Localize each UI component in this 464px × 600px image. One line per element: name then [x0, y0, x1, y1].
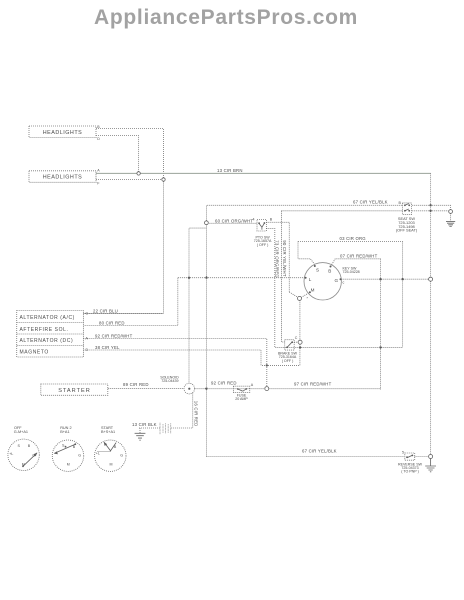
- terminal dot B: [330, 266, 332, 268]
- contact dots PTO: [258, 222, 260, 224]
- svg-text:(OFF SEAT): (OFF SEAT): [396, 228, 418, 233]
- svg-text:B: B: [73, 445, 76, 449]
- wire HL1 pin B to vertical: [96, 129, 164, 180]
- junction solenoid center: [188, 388, 190, 390]
- svg-text:M: M: [67, 463, 70, 467]
- terminal dot M: [309, 291, 311, 293]
- svg-text:G: G: [32, 453, 35, 457]
- PTO switch SW1 box: [257, 220, 266, 232]
- svg-text:M: M: [311, 288, 315, 293]
- contact dots brake: [286, 346, 288, 348]
- svg-text:ALTERNATOR (A/C): ALTERNATOR (A/C): [20, 315, 75, 321]
- terminal dot L: [305, 277, 307, 279]
- ground G2 bottom right: [425, 459, 436, 472]
- wire battery negative to ground: [138, 427, 160, 429]
- PTO switch lever: [259, 223, 265, 230]
- svg-text:16 CIR RED: 16 CIR RED: [193, 401, 198, 427]
- svg-text:+L: +L: [9, 452, 13, 456]
- headlight HL2 box: [29, 171, 96, 183]
- junction brake connector bottom: [299, 346, 301, 348]
- wire 60 CIR ORG/WHT to PTO: [208, 222, 258, 224]
- seat switch lower lever: [405, 209, 409, 211]
- svg-text:( OFF ): ( OFF ): [282, 359, 294, 363]
- battery BT1 ground wire: [139, 428, 141, 433]
- key position circle OFF: [8, 439, 39, 470]
- svg-text:67 CIR YEL/BLK: 67 CIR YEL/BLK: [353, 199, 388, 204]
- wire seat lower right to connector: [412, 210, 448, 212]
- wire key L to left: [178, 277, 305, 279]
- wire 80 CIR RED drop: [83, 278, 177, 326]
- START position dashed L line: [98, 451, 111, 453]
- connector circle 60 CIR wire: [205, 221, 209, 225]
- svg-text:D: D: [86, 348, 89, 352]
- wire HL1 pin D to junction: [96, 136, 139, 174]
- svg-text:C: C: [295, 336, 298, 340]
- svg-text:07 CIR RED/WHT: 07 CIR RED/WHT: [340, 253, 378, 258]
- wire right vertical main: [430, 173, 432, 456]
- wire alternator ac 22 CIR BLU stub: [83, 313, 163, 315]
- junction L wire at x206: [205, 277, 207, 279]
- svg-text:G: G: [120, 453, 123, 457]
- RUN position arrowhead: [54, 451, 58, 454]
- junction L wire at x189: [188, 277, 190, 279]
- junction 97 wire at x206: [205, 387, 207, 389]
- svg-text:S: S: [316, 267, 319, 272]
- contact dots reverse: [406, 456, 408, 458]
- reverse switch SW4 box: [405, 453, 415, 460]
- ground G3 battery: [135, 433, 146, 440]
- junction seat top at right vertical: [429, 204, 431, 206]
- svg-text:S: S: [18, 444, 21, 448]
- connector circle M branch: [298, 296, 302, 300]
- svg-text:A: A: [251, 383, 254, 387]
- wire 03 CIR ORG left drop to S: [298, 242, 315, 265]
- connector circle brake: [298, 340, 302, 344]
- fuse F1 box: [233, 386, 249, 392]
- wire reverse switch to ground connector: [415, 456, 431, 458]
- svg-text:B: B: [270, 218, 273, 222]
- key switch U1 circle: [304, 263, 341, 300]
- svg-text:AFTERFIRE SOL.: AFTERFIRE SOL.: [20, 327, 69, 333]
- svg-text:*: *: [307, 297, 309, 301]
- svg-text:B: B: [28, 444, 31, 448]
- svg-text:89 CIR RED: 89 CIR RED: [123, 382, 149, 387]
- junction seat lower at right vertical: [429, 210, 431, 212]
- junction circle headlight B wire: [162, 178, 165, 181]
- svg-text:725-04439: 725-04439: [161, 379, 178, 383]
- wire 13 CIR BRN HL2 pin A to right vertical: [96, 172, 431, 174]
- connector circle fuse out: [265, 387, 269, 391]
- OFF position contact line M to G: [23, 453, 37, 466]
- alternator stack divider 3: [17, 345, 84, 347]
- brake switch SW2 box: [285, 340, 295, 350]
- svg-text:ALTERNATOR (DC): ALTERNATOR (DC): [20, 338, 74, 344]
- fuse element: [238, 389, 247, 391]
- svg-text:13 CIR BRN: 13 CIR BRN: [217, 168, 243, 173]
- svg-text:M: M: [22, 463, 25, 467]
- svg-text:S: S: [62, 444, 65, 448]
- seat switch SW3 box: [403, 203, 412, 215]
- wire PTO bottom to brake left: [266, 228, 402, 347]
- junction G wire at x380: [379, 278, 381, 280]
- wire 03 CIR ORG right drop: [402, 242, 404, 348]
- wire battery positive riser: [171, 393, 193, 428]
- wire starter to solenoid: [108, 388, 184, 390]
- svg-text:38 CIR YEL: 38 CIR YEL: [95, 345, 120, 350]
- headlight HL1 box: [29, 126, 96, 138]
- OFF position arrowhead: [34, 453, 38, 457]
- seat switch upper lever: [405, 204, 409, 206]
- svg-text:73 CIR ORG/RED: 73 CIR ORG/RED: [275, 240, 280, 277]
- svg-text:22 CIR BLU: 22 CIR BLU: [93, 308, 118, 313]
- svg-text:B+S+A1: B+S+A1: [101, 430, 115, 434]
- svg-text:A: A: [97, 169, 100, 173]
- svg-text:20 AMP: 20 AMP: [235, 397, 248, 401]
- svg-text:+L: +L: [96, 452, 100, 456]
- wire PTO pin B right then down: [266, 222, 289, 292]
- svg-text:HEADLIGHTS: HEADLIGHTS: [43, 174, 82, 180]
- START position V line S-B: [104, 442, 116, 451]
- svg-text:HEADLIGHTS: HEADLIGHTS: [43, 130, 82, 136]
- svg-text:B: B: [114, 445, 117, 449]
- svg-text:MAGNETO: MAGNETO: [20, 350, 49, 356]
- svg-text:B: B: [97, 125, 100, 129]
- contact dots seat lower: [404, 210, 406, 212]
- RUN position B dot: [74, 443, 76, 445]
- svg-text:80 CIR RED: 80 CIR RED: [99, 320, 125, 325]
- svg-text:L: L: [309, 277, 312, 282]
- ground G1 seat: [446, 222, 455, 227]
- svg-text:F: F: [97, 182, 100, 186]
- svg-text:( TO PNP ): ( TO PNP ): [401, 470, 419, 474]
- svg-text:G: G: [335, 278, 339, 283]
- wire 03 CIR ORG: [298, 241, 403, 243]
- wire vertical x282 to brake top: [282, 211, 285, 342]
- wire seat switch top right: [412, 205, 450, 210]
- wire solenoid to fuse to 97 CIR RED/WHT corner: [195, 388, 381, 390]
- battery BT1 plates: [160, 423, 171, 434]
- svg-text:C: C: [86, 312, 89, 316]
- wire junction to solenoid vertical: [189, 228, 207, 383]
- reverse switch X: [407, 455, 413, 458]
- contact dots fuse: [237, 388, 239, 390]
- connector circle bottom right: [429, 455, 433, 459]
- svg-text:92 CIR RED/WHT: 92 CIR RED/WHT: [95, 333, 133, 338]
- svg-text:67 CIR YEL/BLK: 67 CIR YEL/BLK: [302, 448, 337, 453]
- junction wire3 wire4 cross: [266, 364, 268, 366]
- svg-text:( OFF ): ( OFF ): [257, 243, 269, 247]
- key position circle RUN: [52, 440, 83, 471]
- svg-text:B+A1: B+A1: [60, 430, 69, 434]
- svg-text:725-04228: 725-04228: [343, 270, 360, 274]
- alternator stack divider 1: [17, 322, 84, 324]
- START circle letters: [96, 445, 123, 467]
- svg-text:D: D: [97, 137, 100, 141]
- START position arrowhead: [104, 442, 108, 446]
- wire vertical headlights to alternator 22 CIR BLU: [83, 180, 163, 314]
- wire magneto 38 CIR YEL: [83, 350, 299, 365]
- svg-text:5: 5: [402, 451, 404, 455]
- svg-text:92 CIR RED: 92 CIR RED: [211, 381, 237, 386]
- wire seat lower from corner: [282, 210, 403, 212]
- key position circle START: [95, 440, 126, 471]
- svg-text:4: 4: [253, 218, 255, 222]
- alternator stack box: [17, 311, 84, 358]
- svg-text:M: M: [110, 463, 113, 467]
- wire alternator dc 92 CIR RED/WHT: [83, 339, 266, 387]
- svg-text:G-M+A1: G-M+A1: [14, 430, 28, 434]
- svg-text:c: c: [343, 281, 345, 285]
- RUN position S dot: [65, 446, 67, 448]
- junction brake wire at x380: [379, 346, 381, 348]
- svg-text:STARTER: STARTER: [58, 388, 91, 394]
- svg-text:B: B: [328, 268, 331, 273]
- alternator stack divider 2: [17, 333, 84, 335]
- connector circle seat right: [449, 210, 453, 214]
- svg-text:97 CIR RED/WHT: 97 CIR RED/WHT: [294, 382, 332, 387]
- wire 07 CIR RED/WHT from B: [331, 259, 381, 390]
- connector circle G wire right: [429, 277, 433, 281]
- solenoid K1 circle: [184, 383, 195, 394]
- svg-text:G: G: [78, 453, 81, 457]
- wire 67 CIR YEL/BLK top: [207, 205, 403, 456]
- terminal dot G: [340, 278, 342, 280]
- seat ground wire: [450, 213, 452, 221]
- OFF circle letters: [9, 444, 35, 466]
- OFF position M dot: [22, 465, 24, 467]
- svg-text:B: B: [399, 201, 402, 205]
- brake switch lever: [287, 342, 292, 348]
- RUN circle letters: [62, 444, 81, 467]
- wire bottom 67 CIR YEL/BLK: [207, 456, 405, 458]
- wire key G to right connector: [341, 278, 428, 280]
- junction circle headlight D wire: [137, 172, 140, 175]
- svg-text:03 CIR ORG: 03 CIR ORG: [340, 236, 367, 241]
- junction G wire at x402: [401, 278, 403, 280]
- wire HL2 pin F: [96, 179, 164, 181]
- starter M1 box: [41, 384, 108, 395]
- wire M connector down through brake: [299, 298, 301, 365]
- svg-text:90 CIR YEL/WHT: 90 CIR YEL/WHT: [282, 240, 287, 277]
- wire key M diagonal: [300, 292, 311, 298]
- brake switch stub to connector: [294, 341, 300, 343]
- contact dots seat upper: [404, 204, 406, 206]
- svg-text:13 CIR BLK: 13 CIR BLK: [132, 422, 157, 427]
- svg-text:60 CIR ORG/WHT: 60 CIR ORG/WHT: [215, 218, 253, 223]
- terminal dot S: [314, 265, 316, 267]
- RUN position contact line L to B: [55, 444, 76, 453]
- wire diagonal to M connector: [289, 292, 299, 298]
